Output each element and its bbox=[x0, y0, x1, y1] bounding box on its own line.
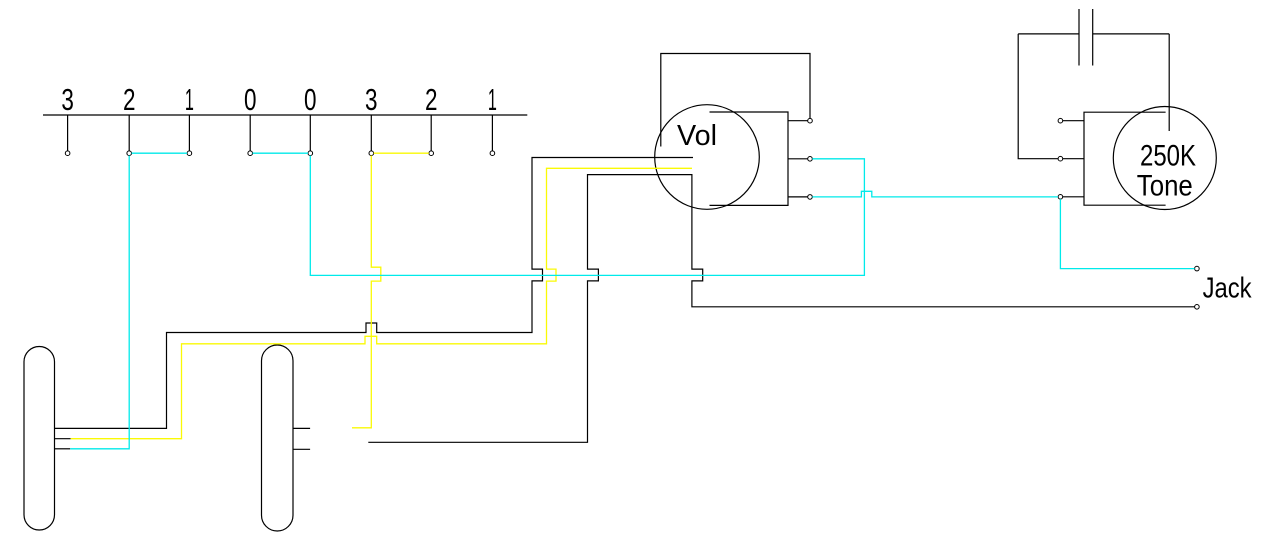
switch pin 6 tick bbox=[370, 115, 372, 151]
pot TONE lug1 terminal bbox=[1058, 118, 1063, 123]
pot VOL lug1 stub bbox=[788, 120, 808, 122]
wire cyan TONE lug3 to jack tip bbox=[1060, 199, 1194, 269]
wire cyan jumper pins 4-5 bbox=[253, 152, 309, 154]
pot TONE lug1 stub bbox=[1063, 120, 1084, 122]
wire VOL lug1 to case loop bbox=[661, 54, 810, 147]
switch pin 3 terminal bbox=[187, 151, 192, 156]
wire cyan switch pin2 down to P1 bottom bbox=[70, 156, 129, 449]
wire yellow switch pin6 down to stub bbox=[352, 156, 381, 428]
switch pin 8 tick bbox=[491, 115, 493, 151]
jack tip terminal bbox=[1195, 266, 1200, 271]
svg-text:2: 2 bbox=[123, 82, 136, 117]
switch pin 4 tick bbox=[249, 115, 251, 151]
switch pin 1 tick bbox=[67, 115, 69, 151]
pot VOL lug3 terminal bbox=[808, 195, 813, 200]
svg-text:3: 3 bbox=[61, 82, 74, 117]
capacitor C1 right plate bbox=[1092, 9, 1094, 66]
svg-text:1: 1 bbox=[185, 82, 194, 117]
svg-text:250K: 250K bbox=[1140, 140, 1196, 173]
pot TONE lug3 stub bbox=[1063, 196, 1084, 198]
svg-text:1: 1 bbox=[488, 82, 497, 117]
switch pin 7 tick bbox=[430, 115, 432, 151]
wire black P1 hot to VOL wiper bbox=[55, 158, 694, 429]
switch pin 6 terminal bbox=[369, 151, 374, 156]
wire cyan switch pin5 to VOL lug2 bbox=[310, 156, 864, 276]
switch pin 7 terminal bbox=[429, 151, 434, 156]
wire cyan jumper pins 2-3 bbox=[132, 152, 188, 154]
switch SW1 common bar bbox=[43, 114, 527, 116]
pickup P2 lead stub top bbox=[293, 427, 310, 429]
pickup P2 lead stub bottom bbox=[293, 448, 310, 450]
pickup P1 lead stub mid bbox=[55, 438, 71, 440]
wire cap to TONE lug2 bbox=[1018, 34, 1058, 159]
wire cyan VOL lug3 to TONE lug3 bbox=[812, 191, 1058, 197]
svg-text:0: 0 bbox=[304, 82, 317, 117]
capacitor C1 left lead bbox=[1018, 33, 1079, 35]
svg-text:Tone: Tone bbox=[1137, 170, 1193, 203]
pot TONE lug2 stub bbox=[1063, 158, 1084, 160]
pot TONE lug2 terminal bbox=[1058, 156, 1063, 161]
pickup P2 outline bbox=[262, 345, 294, 531]
capacitor C1 left plate bbox=[1078, 9, 1080, 66]
wire yellow jumper pins 6-7 bbox=[374, 152, 429, 154]
svg-text:0: 0 bbox=[244, 82, 257, 117]
svg-text:Vol: Vol bbox=[677, 120, 717, 152]
pot TONE lug3 terminal bbox=[1058, 195, 1063, 200]
wire cap to TONE wiper bbox=[1168, 34, 1170, 131]
jack sleeve terminal bbox=[1195, 305, 1200, 310]
capacitor C1 right lead bbox=[1093, 33, 1170, 35]
switch pin 8 terminal bbox=[490, 151, 495, 156]
svg-text:Jack: Jack bbox=[1203, 273, 1253, 305]
switch pin 2 terminal bbox=[127, 151, 132, 156]
pickup P1 outline bbox=[24, 347, 55, 531]
pot VOL body bbox=[710, 112, 789, 205]
svg-text:3: 3 bbox=[365, 82, 378, 117]
pot VOL lug2 terminal bbox=[808, 157, 813, 162]
pot VOL lug2 stub bbox=[788, 158, 808, 160]
switch pin 2 tick bbox=[128, 115, 130, 151]
pot VOL lug3 stub bbox=[788, 196, 808, 198]
pickup P1 lead stub bottom bbox=[55, 448, 71, 450]
pot VOL lug1 terminal bbox=[808, 118, 813, 123]
pot VOL circle bbox=[655, 105, 760, 210]
switch pin 4 terminal bbox=[248, 151, 253, 156]
switch pin 3 tick bbox=[188, 115, 190, 151]
wire black P2 path to jack sleeve bbox=[368, 175, 1194, 443]
wire yellow P1 mid to VOL bbox=[71, 168, 692, 438]
switch pin 5 terminal bbox=[308, 151, 313, 156]
pot TONE circle bbox=[1113, 107, 1216, 210]
pot TONE body bbox=[1084, 112, 1166, 205]
svg-text:2: 2 bbox=[425, 82, 438, 117]
switch pin 5 tick bbox=[309, 115, 311, 151]
switch pin 1 terminal bbox=[65, 151, 70, 156]
